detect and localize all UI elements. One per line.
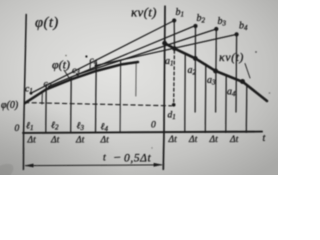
stray dot left of C4 label — [85, 55, 87, 57]
svg-text:Δt: Δt — [75, 136, 85, 146]
dot b3 — [214, 27, 218, 31]
faint tick x=136 — [135, 64, 137, 97]
svg-text:c1: c1 — [25, 85, 33, 96]
svg-text:c4: c4 — [90, 56, 98, 67]
svg-text:ℓ1: ℓ1 — [26, 122, 33, 133]
dot b4 — [235, 32, 239, 36]
svg-text:φ(t): φ(t) — [52, 58, 70, 72]
pointer tick below c2 label — [41, 94, 43, 105]
right cell tick x=205.5 — [204, 64, 207, 132]
svg-text:0,5Δt: 0,5Δt — [124, 153, 152, 165]
chord c1 to b1 — [31, 21, 174, 94]
minus in dimension text — [115, 156, 121, 158]
chord c2 to b2 — [49, 26, 196, 87]
dot b2 — [193, 24, 197, 28]
right cell tick x=226 — [225, 75, 227, 132]
svg-text:ℓ3: ℓ3 — [77, 122, 85, 133]
svg-text:φ(0): φ(0) — [1, 100, 19, 111]
dot a2 — [193, 56, 198, 61]
dot a4 — [240, 79, 245, 84]
svg-text:κν(t): κν(t) — [219, 50, 244, 64]
tick x=96 — [95, 63, 98, 133]
tick x=120 — [119, 61, 122, 133]
scan speck — [65, 55, 67, 57]
chord c4 to b4 — [96, 34, 237, 65]
svg-text:c3: c3 — [72, 66, 80, 77]
dashed phi(0) horizontal line — [25, 103, 172, 106]
pointer from phi(t) small label — [64, 70, 70, 79]
svg-text:t: t — [263, 133, 266, 144]
dot a3 — [213, 69, 218, 74]
svg-text:Δt: Δt — [168, 135, 178, 145]
svg-text:ℓ2: ℓ2 — [51, 121, 59, 132]
vertical from b2 down — [194, 26, 196, 112]
svg-text:ℓ4: ℓ4 — [101, 122, 109, 133]
dot c3 — [76, 73, 79, 76]
svg-text:φ(t): φ(t) — [35, 15, 59, 31]
vertical from b4 down — [235, 34, 238, 112]
paper background — [0, 0, 278, 175]
scan speck — [269, 92, 271, 94]
t axis — [23, 132, 262, 133]
svg-text:0: 0 — [15, 124, 20, 134]
dot on axis at start of kv line — [162, 41, 167, 46]
phi(t) axis (left vertical) — [23, 15, 26, 170]
svg-text:d1: d1 — [168, 111, 176, 122]
tick x=71 — [70, 77, 73, 133]
dimension line t-0.5dt — [26, 164, 162, 167]
scan speck — [255, 51, 257, 53]
svg-text:c2: c2 — [44, 80, 52, 91]
vertical from b1 down to a1 — [173, 21, 175, 49]
svg-text:t: t — [103, 153, 106, 164]
arrowhead right of dimension — [154, 163, 163, 167]
tick l1-cell right boundary x=46 — [45, 85, 47, 133]
svg-text:Δt: Δt — [100, 136, 110, 146]
dot d1 — [172, 103, 176, 107]
dot c4 — [95, 64, 98, 67]
pointer tick below c4 label — [89, 64, 91, 69]
svg-text:κν(t): κν(t) — [131, 5, 157, 20]
kv(t) axis (middle vertical) — [163, 6, 165, 169]
bottom-left corner smudge — [0, 159, 17, 193]
thick kv(t) curve — [165, 43, 267, 101]
dot c2 — [48, 86, 51, 89]
pointer from kv(t) right label — [245, 64, 250, 79]
chord c3 to b3 — [78, 29, 217, 75]
dashed vertical a1 to d1 — [173, 51, 176, 103]
dot a1 — [172, 46, 177, 51]
thick phi(t) curve — [25, 62, 138, 103]
scan speck — [151, 147, 152, 148]
arrowhead left of dimension — [24, 164, 33, 168]
svg-text:Δt: Δt — [209, 135, 219, 145]
svg-text:0: 0 — [151, 121, 156, 131]
svg-text:Δt: Δt — [188, 135, 198, 145]
right cell tick x=185 — [184, 54, 186, 133]
dot b1 — [172, 18, 176, 22]
vertical from b3 down — [215, 29, 218, 112]
svg-text:Δt: Δt — [229, 135, 239, 145]
svg-text:Δt: Δt — [50, 136, 60, 146]
dot c1 — [30, 92, 33, 95]
svg-text:Δt: Δt — [27, 136, 37, 146]
right cell tick x=246.5 — [245, 85, 248, 133]
